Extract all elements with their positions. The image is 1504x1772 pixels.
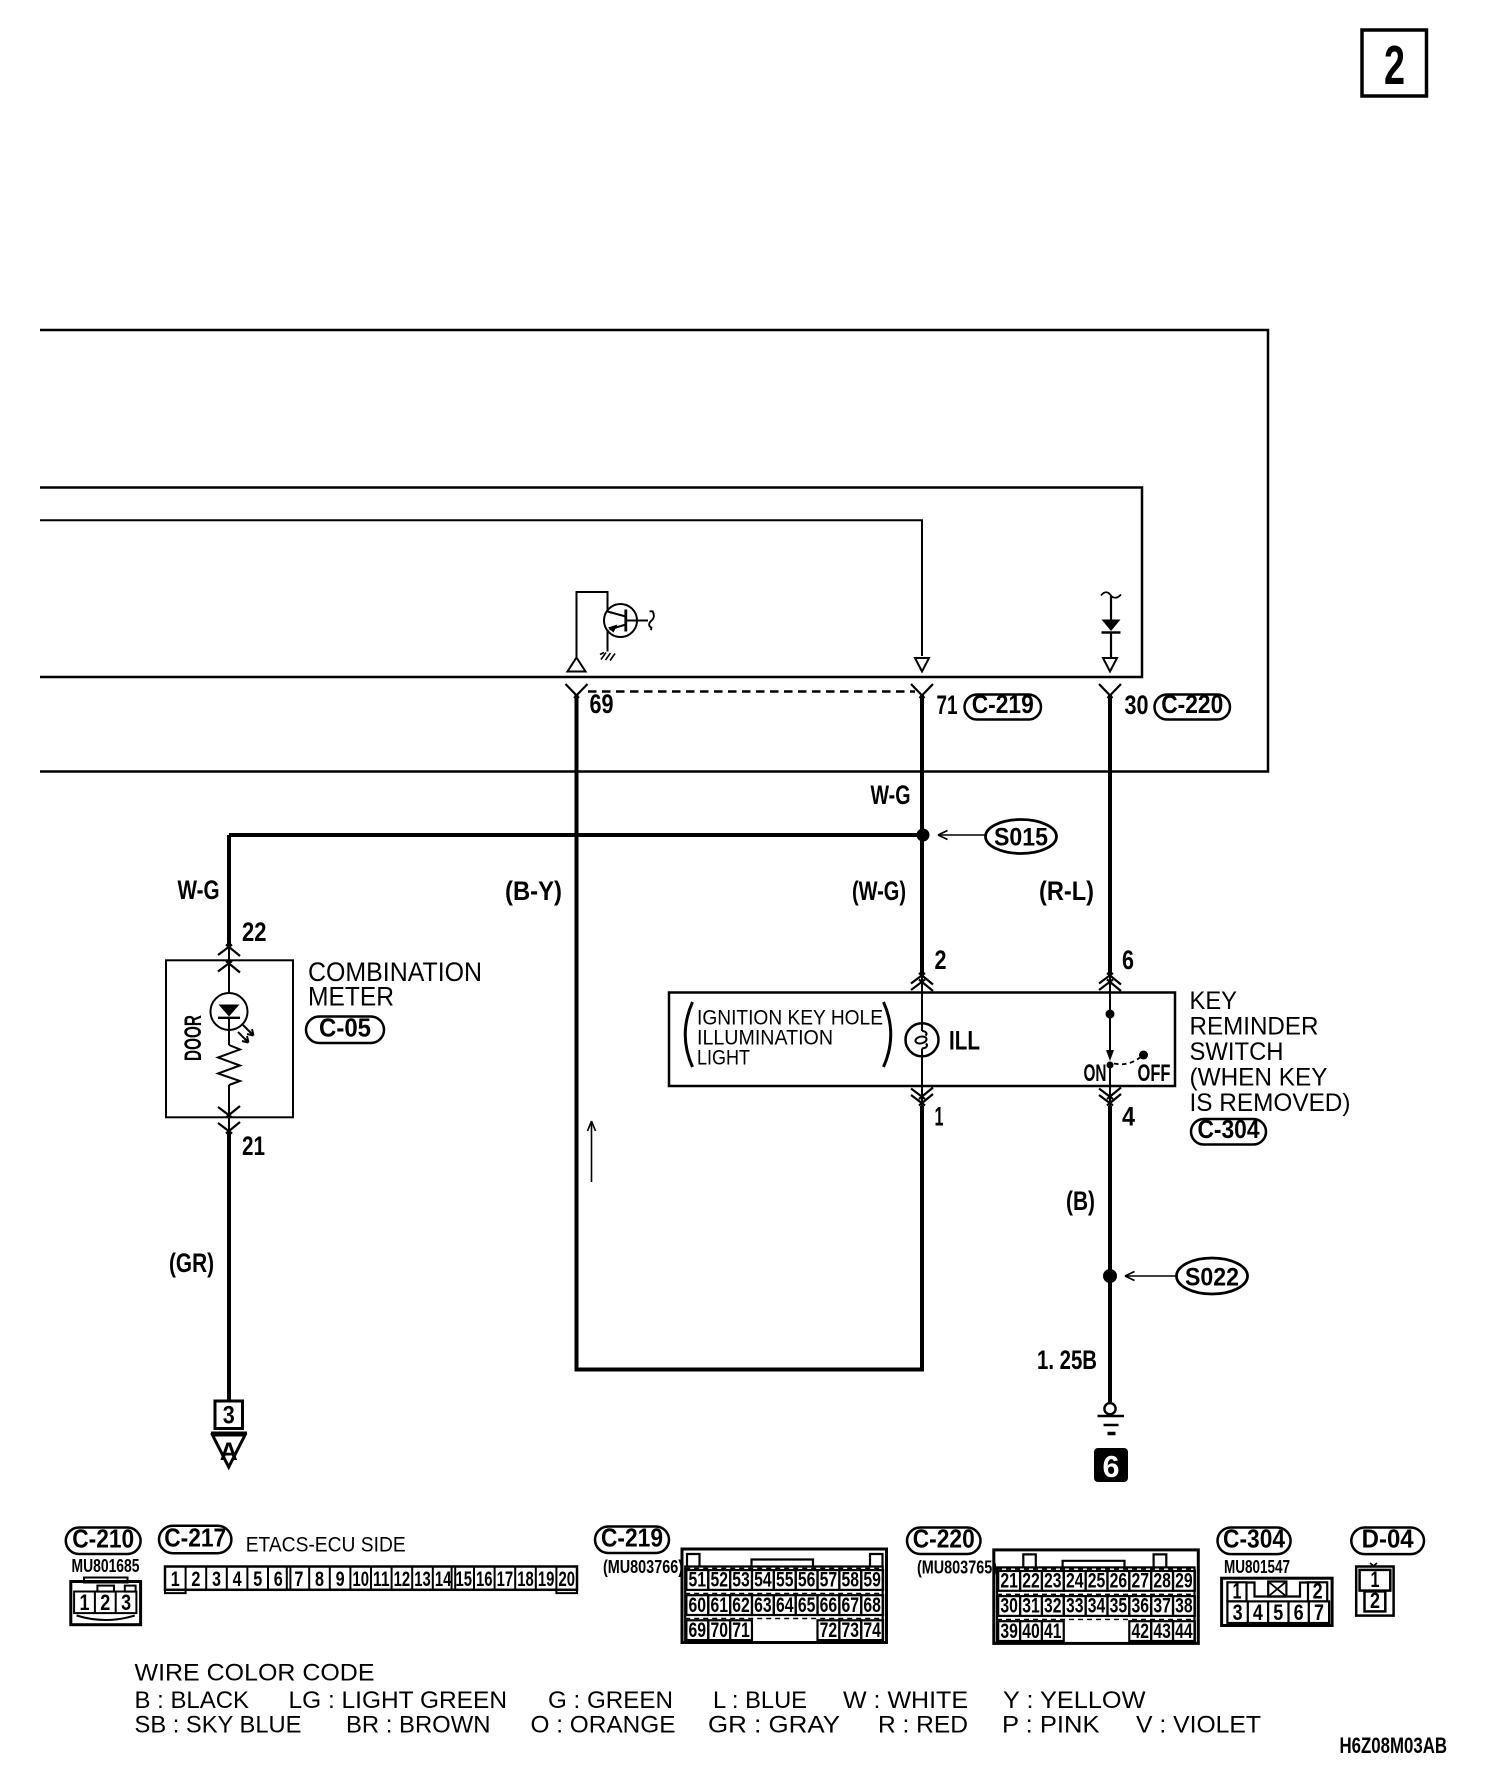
svg-text:64: 64: [776, 1594, 794, 1617]
terminal box 3: [215, 1401, 243, 1430]
connector chevrons switch pin 4: [1099, 1088, 1121, 1106]
svg-text:71: 71: [732, 1619, 750, 1642]
svg-text:C-304: C-304: [1198, 1114, 1260, 1144]
connector label C-05: [306, 1013, 384, 1044]
svg-text:1: 1: [935, 1102, 944, 1132]
meter internal wire top: [228, 960, 230, 994]
wire pin 30 down to switch pin 6: [1108, 695, 1112, 973]
svg-text:69: 69: [590, 689, 614, 719]
caption key reminder switch: [1190, 987, 1351, 1117]
svg-text:15: 15: [455, 1568, 472, 1591]
svg-text:70: 70: [710, 1619, 728, 1642]
svg-text:54: 54: [754, 1569, 772, 1592]
switch wire to box bottom: [1109, 1066, 1111, 1086]
svg-text:58: 58: [842, 1569, 860, 1592]
connector view C-210: [71, 1578, 141, 1625]
diode D1: [1101, 592, 1121, 657]
svg-text:65: 65: [798, 1594, 816, 1617]
connector label C-220 (pin 30): [1155, 689, 1231, 720]
svg-text:WIRE COLOR CODE: WIRE COLOR CODE: [135, 1660, 375, 1687]
lamp ILL bulb: [906, 1023, 939, 1056]
svg-text:W-G: W-G: [178, 875, 220, 905]
svg-text:6: 6: [274, 1568, 283, 1591]
svg-text:C-304: C-304: [1223, 1524, 1285, 1554]
svg-text:3: 3: [212, 1568, 221, 1591]
svg-text:(W-G): (W-G): [852, 876, 906, 906]
switch contact dot upper: [1106, 1010, 1115, 1019]
transistor Q1 (door-light driver): [577, 592, 649, 659]
connector label C-304: [1218, 1524, 1291, 1555]
svg-text:OFF: OFF: [1138, 1060, 1171, 1087]
svg-text:41: 41: [1044, 1620, 1062, 1643]
svg-text:22: 22: [242, 917, 267, 947]
ground symbol: [1098, 1403, 1125, 1433]
connector chevrons meter pin 22: [218, 945, 240, 973]
terminal triangle pin 69: [568, 658, 586, 672]
svg-text:8: 8: [315, 1568, 324, 1591]
wire W-G horizontal (splice run): [229, 833, 923, 837]
svg-text:1: 1: [171, 1568, 180, 1591]
svg-text:32: 32: [1044, 1595, 1062, 1618]
big parenthesis right: [884, 1002, 891, 1067]
svg-text:ON: ON: [1084, 1060, 1107, 1087]
caption ignition key hole illumination light: [697, 1007, 883, 1070]
svg-text:(MU803765): (MU803765): [917, 1558, 997, 1578]
connector chevrons lamp pin 2: [911, 973, 933, 991]
connector label D-04: [1351, 1524, 1424, 1555]
connector view C-217: [165, 1567, 577, 1594]
svg-text:KEY: KEY: [1190, 987, 1238, 1015]
svg-text:5: 5: [253, 1568, 262, 1591]
svg-text:(MU803766): (MU803766): [603, 1557, 683, 1577]
svg-text:14: 14: [435, 1568, 452, 1591]
svg-text:G : GREEN: G : GREEN: [548, 1687, 673, 1714]
svg-text:C-219: C-219: [601, 1523, 663, 1553]
terminal arrow pin 30: [1103, 658, 1117, 672]
wire pin 69 down, across, up to lamp pin 1: [577, 695, 923, 1370]
connector view C-304: [1222, 1578, 1333, 1625]
meter internal wire mid: [228, 1018, 230, 1045]
legend row 1: [135, 1687, 1146, 1714]
page number box 2: [1362, 30, 1427, 96]
big parenthesis left: [685, 1002, 692, 1067]
svg-text:25: 25: [1088, 1570, 1106, 1593]
LED door lamp: [211, 993, 254, 1043]
dashed connector line 69-71: [588, 690, 915, 692]
svg-text:28: 28: [1153, 1570, 1171, 1593]
svg-text:ETACS-ECU SIDE: ETACS-ECU SIDE: [246, 1534, 406, 1557]
svg-text:(B): (B): [1066, 1186, 1095, 1216]
terminal Y pin 69: [566, 684, 588, 698]
splice callout S022: [1125, 1258, 1248, 1294]
svg-text:33: 33: [1066, 1595, 1084, 1618]
svg-text:(WHEN KEY: (WHEN KEY: [1190, 1064, 1328, 1092]
svg-text:B : BLACK: B : BLACK: [135, 1687, 250, 1714]
current direction arrow: [588, 1121, 596, 1182]
terminal arrow pin 71: [915, 658, 929, 672]
wire switch pin 4 down to ground: [1109, 1086, 1111, 1106]
switch arrowhead: [1106, 1050, 1114, 1061]
svg-text:24: 24: [1066, 1570, 1084, 1593]
svg-text:9: 9: [336, 1568, 345, 1591]
svg-text:3: 3: [223, 1402, 235, 1430]
svg-text:S022: S022: [1185, 1264, 1239, 1292]
svg-text:6: 6: [1294, 1600, 1304, 1625]
meter internal wire bottom: [228, 1085, 230, 1118]
svg-text:60: 60: [689, 1594, 707, 1617]
svg-text:C-220: C-220: [913, 1524, 975, 1554]
terminal Y pin 30: [1099, 684, 1121, 698]
svg-text:31: 31: [1022, 1595, 1040, 1618]
svg-text:1. 25B: 1. 25B: [1037, 1345, 1097, 1375]
svg-text:53: 53: [732, 1569, 750, 1592]
svg-text:(B-Y): (B-Y): [505, 876, 562, 906]
svg-text:71: 71: [937, 690, 958, 720]
svg-text:73: 73: [842, 1619, 860, 1642]
svg-text:59: 59: [863, 1569, 881, 1592]
svg-text:7: 7: [1314, 1600, 1324, 1625]
svg-text:26: 26: [1110, 1570, 1128, 1593]
svg-text:29: 29: [1175, 1570, 1193, 1593]
svg-text:21: 21: [1000, 1570, 1018, 1593]
svg-text:2: 2: [100, 1590, 110, 1615]
svg-text:12: 12: [394, 1568, 411, 1591]
svg-text:37: 37: [1153, 1595, 1171, 1618]
svg-text:IS REMOVED): IS REMOVED): [1190, 1089, 1351, 1117]
svg-text:3: 3: [1233, 1600, 1243, 1625]
svg-text:O : ORANGE: O : ORANGE: [531, 1712, 676, 1739]
svg-text:2: 2: [1370, 1588, 1380, 1613]
connector chevrons switch pin 6: [1099, 973, 1121, 991]
wire meter pin 21 to terminal 3: [228, 1118, 230, 1134]
svg-text:DOOR: DOOR: [180, 1015, 207, 1061]
splice junction S015: [917, 829, 930, 842]
svg-text:MU801685: MU801685: [72, 1556, 140, 1576]
connector label C-220: [907, 1524, 981, 1555]
svg-text:11: 11: [373, 1568, 390, 1591]
power triangle A: [211, 1433, 247, 1467]
svg-text:38: 38: [1175, 1595, 1193, 1618]
svg-text:30: 30: [1000, 1595, 1018, 1618]
svg-text:3: 3: [121, 1590, 131, 1615]
svg-text:13: 13: [414, 1568, 431, 1591]
terminal Y pin 71: [911, 684, 933, 698]
svg-text:69: 69: [689, 1619, 707, 1642]
svg-text:C-219: C-219: [972, 689, 1034, 719]
svg-text:A: A: [220, 1438, 238, 1466]
svg-text:LG : LIGHT GREEN: LG : LIGHT GREEN: [289, 1687, 508, 1714]
wire meter pin 22 drop: [227, 835, 231, 946]
svg-text:METER: METER: [308, 982, 394, 1012]
wire pin 71 to ignition lamp pin 2: [920, 695, 924, 973]
squiggle connection (transistor collector): [649, 611, 654, 630]
svg-text:1: 1: [80, 1590, 90, 1615]
svg-text:7: 7: [294, 1568, 303, 1591]
svg-text:H6Z08M03AB: H6Z08M03AB: [1340, 1733, 1448, 1758]
svg-text:LIGHT: LIGHT: [697, 1047, 750, 1070]
switch ON contact dot: [1107, 1062, 1114, 1069]
switch wire upper: [1109, 993, 1111, 1011]
svg-text:67: 67: [842, 1594, 860, 1617]
svg-text:68: 68: [863, 1594, 881, 1617]
svg-text:10: 10: [352, 1568, 369, 1591]
switch moving contact: [1109, 1018, 1111, 1050]
svg-text:40: 40: [1022, 1620, 1040, 1643]
svg-text:L : BLUE: L : BLUE: [713, 1687, 807, 1714]
svg-text:C-220: C-220: [1161, 689, 1223, 719]
svg-text:C-217: C-217: [164, 1523, 226, 1553]
svg-text:4: 4: [233, 1568, 242, 1591]
svg-text:4: 4: [1253, 1600, 1264, 1625]
splice junction S022: [1103, 1269, 1117, 1283]
svg-text:55: 55: [776, 1569, 794, 1592]
svg-text:SWITCH: SWITCH: [1190, 1038, 1284, 1066]
legend row 2: [135, 1712, 1262, 1739]
combination meter box C-05: [166, 960, 293, 1117]
svg-text:R : RED: R : RED: [878, 1712, 968, 1739]
svg-text:39: 39: [1000, 1620, 1018, 1643]
svg-text:27: 27: [1131, 1570, 1149, 1593]
svg-text:2: 2: [935, 945, 947, 975]
svg-text:P : PINK: P : PINK: [1002, 1712, 1100, 1739]
svg-text:56: 56: [798, 1569, 816, 1592]
svg-text:2: 2: [191, 1568, 200, 1591]
caption COMBINATION METER: [308, 957, 482, 1012]
connector label C-217: [159, 1523, 231, 1554]
svg-text:52: 52: [710, 1569, 728, 1592]
svg-text:5: 5: [1273, 1600, 1283, 1625]
svg-text:SB : SKY BLUE: SB : SKY BLUE: [135, 1712, 302, 1739]
connector chevrons lamp pin 1: [911, 1088, 933, 1106]
svg-text:4: 4: [1122, 1102, 1135, 1132]
lamp wire lower: [921, 1049, 923, 1087]
svg-text:6: 6: [1103, 1449, 1120, 1484]
svg-text:51: 51: [689, 1569, 707, 1592]
svg-text:22: 22: [1022, 1570, 1040, 1593]
connector label C-219: [595, 1523, 669, 1554]
svg-text:2: 2: [1384, 34, 1405, 96]
connector view D-04: [1356, 1563, 1393, 1616]
lamp wire upper: [921, 993, 923, 1032]
svg-text:61: 61: [710, 1594, 728, 1617]
ECU inner box (open left): [40, 488, 1142, 678]
ignition key hole illumination light box: [669, 993, 1175, 1087]
svg-text:D-04: D-04: [1362, 1524, 1414, 1554]
svg-text:20: 20: [558, 1568, 575, 1591]
connector chevrons meter pin 21: [218, 1106, 240, 1134]
svg-text:34: 34: [1088, 1595, 1106, 1618]
svg-text:19: 19: [538, 1568, 555, 1591]
svg-text:66: 66: [820, 1594, 838, 1617]
splice callout S015: [938, 820, 1057, 854]
wire internal line to pin 71: [40, 520, 922, 656]
switch OFF contact dot: [1139, 1051, 1148, 1060]
svg-text:63: 63: [754, 1594, 772, 1617]
svg-text:(R-L): (R-L): [1039, 876, 1094, 906]
switch dashed throw: [1114, 1058, 1140, 1065]
resistor (meter): [218, 1045, 240, 1085]
svg-text:C-05: C-05: [319, 1013, 371, 1043]
connector label C-219 (pin 71): [965, 689, 1042, 720]
svg-text:44: 44: [1175, 1620, 1193, 1643]
svg-text:72: 72: [820, 1619, 838, 1642]
svg-text:MU801547: MU801547: [1224, 1557, 1290, 1577]
ground ref box 6: [1094, 1448, 1128, 1484]
svg-text:V : VIOLET: V : VIOLET: [1136, 1712, 1261, 1739]
transistor chassis ground: [600, 653, 615, 661]
svg-text:ILL: ILL: [949, 1026, 980, 1056]
svg-text:35: 35: [1110, 1595, 1128, 1618]
svg-text:57: 57: [820, 1569, 838, 1592]
connector label C-210: [66, 1524, 141, 1555]
svg-text:17: 17: [497, 1568, 514, 1591]
svg-text:62: 62: [732, 1594, 750, 1617]
connector view C-220: [994, 1550, 1199, 1644]
svg-text:C-210: C-210: [72, 1524, 134, 1554]
connector label C-304 (caption): [1191, 1114, 1266, 1145]
svg-text:36: 36: [1131, 1595, 1149, 1618]
svg-text:REMINDER: REMINDER: [1190, 1013, 1319, 1041]
svg-text:21: 21: [242, 1131, 265, 1161]
svg-text:23: 23: [1044, 1570, 1062, 1593]
svg-text:16: 16: [476, 1568, 493, 1591]
svg-text:GR : GRAY: GR : GRAY: [708, 1712, 840, 1739]
svg-text:W : WHITE: W : WHITE: [843, 1687, 968, 1714]
svg-text:18: 18: [517, 1568, 534, 1591]
svg-text:74: 74: [863, 1619, 881, 1642]
ECU outer box (open left): [40, 330, 1268, 772]
svg-text:BR : BROWN: BR : BROWN: [346, 1712, 491, 1739]
connector view C-219: [682, 1549, 887, 1643]
svg-text:6: 6: [1122, 945, 1134, 975]
svg-text:42: 42: [1131, 1620, 1149, 1643]
svg-text:Y : YELLOW: Y : YELLOW: [1003, 1687, 1146, 1714]
svg-text:43: 43: [1153, 1620, 1171, 1643]
svg-text:W-G: W-G: [871, 780, 911, 810]
svg-text:S015: S015: [994, 824, 1048, 852]
svg-text:(GR): (GR): [169, 1248, 214, 1278]
svg-text:30: 30: [1125, 690, 1149, 720]
